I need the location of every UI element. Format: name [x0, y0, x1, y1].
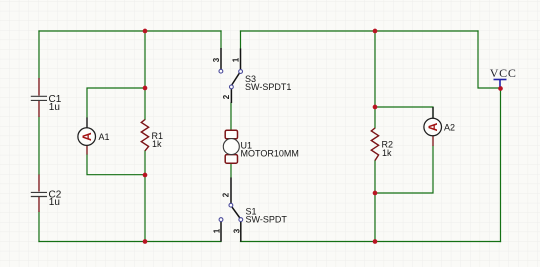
svg-text:A: A: [80, 132, 94, 141]
svg-text:A: A: [426, 122, 440, 131]
svg-text:1: 1: [232, 57, 241, 62]
svg-text:3: 3: [212, 57, 221, 62]
svg-text:1u: 1u: [49, 197, 60, 208]
svg-text:3: 3: [233, 228, 242, 233]
svg-text:1k: 1k: [152, 139, 162, 149]
svg-text:1u: 1u: [49, 102, 60, 113]
svg-text:SW-SPDT1: SW-SPDT1: [245, 82, 291, 92]
svg-text:MOTOR10MM: MOTOR10MM: [241, 149, 299, 159]
svg-text:2: 2: [222, 94, 231, 99]
svg-text:1k: 1k: [382, 148, 392, 158]
svg-text:A2: A2: [444, 123, 455, 133]
svg-text:2: 2: [222, 192, 231, 197]
svg-text:A1: A1: [99, 132, 110, 142]
svg-text:SW-SPDT: SW-SPDT: [246, 215, 288, 225]
svg-text:VCC: VCC: [490, 66, 517, 80]
svg-text:1: 1: [213, 228, 222, 233]
